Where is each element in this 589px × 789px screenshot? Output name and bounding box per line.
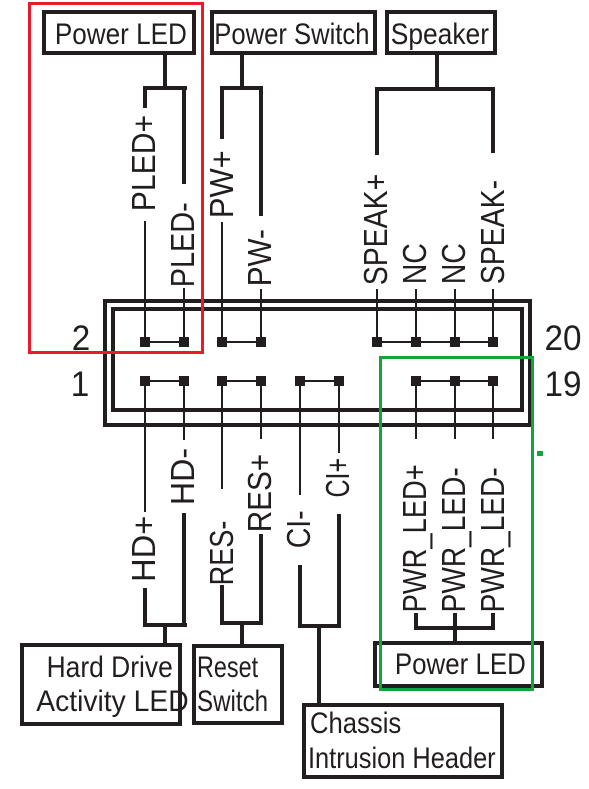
wire bar Power Switch pair bbox=[220, 86, 263, 90]
pin 14 SPEAK+ bbox=[372, 337, 382, 347]
wire NC to pin 18 bbox=[454, 289, 456, 342]
wire bar Power LED pair bbox=[143, 86, 187, 90]
box Hard Drive Activity LED bbox=[20, 643, 182, 726]
wire branch to PW+ label bbox=[220, 86, 224, 139]
wire bar HD pair bbox=[143, 623, 187, 627]
wire pin 5 to RES- label bbox=[221, 381, 223, 489]
pin 16 NC bbox=[411, 337, 421, 347]
connector F_PANEL outer body bbox=[103, 299, 532, 427]
link pins 1-3 bbox=[145, 380, 184, 382]
net label CI- bbox=[283, 509, 317, 550]
link pins 9-11 bbox=[300, 380, 339, 382]
wire SPEAK+ to pin 14 bbox=[376, 289, 378, 342]
wire pin 19 to PWR_LED- label bbox=[492, 381, 494, 439]
wire PW- to pin 8 bbox=[260, 289, 262, 342]
wire branch to SPEAK- label bbox=[491, 87, 495, 153]
wire bar PWR_LED group bbox=[414, 626, 495, 630]
highlight rect green (bottom Power LED group) bbox=[379, 356, 534, 691]
link pins 14-20 bbox=[377, 341, 493, 343]
wire branch to SPEAK+ label bbox=[375, 87, 379, 155]
net label PLED- bbox=[167, 201, 201, 289]
pin number 20 bbox=[542, 322, 584, 356]
box Chassis Intrusion Header bbox=[302, 703, 504, 779]
wire stem to Chassis Intrusion box bbox=[317, 626, 321, 707]
pin 6 PW+ bbox=[217, 337, 227, 347]
wire stem from Power Switch box bbox=[240, 53, 244, 90]
box Reset Switch bbox=[192, 644, 284, 725]
link pins 6-8 bbox=[222, 341, 261, 343]
wire RES+ label to bar bbox=[259, 534, 263, 625]
pin 18 NC bbox=[450, 337, 460, 347]
wire bar Speaker pair bbox=[375, 87, 495, 91]
pin 3 HD- bbox=[179, 376, 189, 386]
net label NC (pin 18) bbox=[438, 241, 472, 286]
pin 4 PLED- bbox=[179, 337, 189, 347]
pin 15 PWR_LED+ bbox=[411, 376, 421, 386]
wire pin 7 to RES+ label bbox=[260, 381, 262, 439]
pin 7 RES+ bbox=[256, 376, 266, 386]
pin 20 SPEAK- bbox=[488, 337, 498, 347]
pin number 1 bbox=[59, 368, 101, 402]
wire stem from Power LED box bbox=[163, 53, 167, 90]
wire pin 17 to PWR_LED- label bbox=[454, 381, 456, 439]
box Power Switch bbox=[210, 10, 377, 55]
pin 11 CI+ bbox=[334, 376, 344, 386]
net label PLED+ bbox=[128, 113, 162, 213]
wire HD+ label to bar bbox=[143, 588, 147, 627]
wire stem to Hard Drive box bbox=[163, 625, 167, 647]
wire SPEAK- to pin 20 bbox=[492, 289, 494, 342]
pin 19 PWR_LED- bbox=[488, 376, 498, 386]
net label HD+ bbox=[128, 514, 162, 584]
net label RES- bbox=[206, 519, 240, 587]
wire NC to pin 16 bbox=[415, 289, 417, 342]
wire PWR_LED- label to bar (pin17) bbox=[453, 613, 457, 630]
wire pin 3 to HD- label bbox=[183, 381, 185, 440]
connector F_PANEL inner body bbox=[111, 307, 524, 412]
wire PWR_LED- label to bar (pin19) bbox=[491, 613, 495, 630]
pin 17 PWR_LED- bbox=[450, 376, 460, 386]
wire pin 9 to CI- label bbox=[299, 381, 301, 495]
wire stem to Reset Switch box bbox=[240, 623, 244, 647]
wire PW+ to pin 6 bbox=[221, 222, 223, 342]
pin 5 RES- bbox=[217, 376, 227, 386]
wire PLED+ to pin 2 bbox=[144, 221, 146, 342]
wire branch to PLED+ label bbox=[143, 86, 147, 108]
net label CI+ bbox=[322, 456, 356, 499]
net label PWR_LED- (pin 19) bbox=[477, 466, 511, 614]
wire branch to PW- label bbox=[259, 86, 263, 216]
net label NC (pin 16) bbox=[399, 241, 433, 286]
wire branch to PLED- label bbox=[182, 86, 186, 184]
wire RES- label to bar bbox=[220, 585, 224, 625]
wire pin 11 to CI+ label bbox=[338, 381, 340, 453]
wire HD- label to bar bbox=[182, 513, 186, 627]
net label SPEAK- bbox=[477, 178, 511, 286]
wire stem from Speaker box bbox=[435, 53, 439, 91]
net label RES+ bbox=[244, 452, 278, 534]
link pins 2-4 bbox=[145, 341, 184, 343]
pin 1 HD+ bbox=[140, 376, 150, 386]
net label PWR_LED- (pin 17) bbox=[438, 466, 472, 614]
wire PLED- to pin 4 bbox=[183, 288, 185, 342]
green tick mark bbox=[537, 451, 543, 456]
wire PWR_LED+ label to bar bbox=[414, 613, 418, 630]
net label HD- bbox=[167, 446, 201, 507]
highlight rect red (top Power LED group) bbox=[28, 2, 204, 354]
net label PW+ bbox=[206, 148, 240, 220]
net label SPEAK+ bbox=[360, 172, 394, 287]
wire bar RES pair bbox=[220, 621, 263, 625]
link pins 5-7 bbox=[222, 380, 261, 382]
wire pin 15 to PWR_LED+ label bbox=[415, 381, 417, 439]
link pins 15-19 bbox=[416, 380, 493, 382]
pin number 19 bbox=[542, 368, 584, 402]
wire CI- label to bar bbox=[298, 565, 302, 628]
net label PW- bbox=[244, 227, 278, 288]
box Power LED (bottom) bbox=[373, 641, 544, 688]
wire CI+ label to bar bbox=[337, 514, 341, 628]
wire pin 1 to HD+ label bbox=[144, 381, 146, 512]
wire stem to Power LED bottom box bbox=[453, 628, 457, 646]
pin number 2 bbox=[60, 322, 102, 356]
box Power LED (top) bbox=[42, 10, 196, 55]
wire bar CI pair bbox=[298, 624, 341, 628]
pin 9 CI- bbox=[295, 376, 305, 386]
pin 8 PW- bbox=[256, 337, 266, 347]
pin 2 PLED+ bbox=[140, 337, 150, 347]
net label PWR_LED+ bbox=[399, 463, 433, 614]
box Speaker bbox=[385, 10, 497, 55]
